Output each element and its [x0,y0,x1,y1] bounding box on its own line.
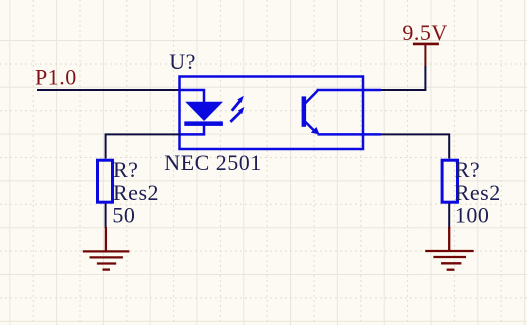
designator R? of R2 [455,157,480,182]
svg-text:Res2: Res2 [455,180,501,205]
value 50 of R1 [112,203,135,228]
svg-text:R?: R? [113,157,138,182]
svg-text:50: 50 [112,203,135,228]
svg-text:R?: R? [455,157,480,182]
svg-text:9.5V: 9.5V [402,20,447,45]
optocoupler U? body [180,77,364,150]
power port 9.5V [402,20,447,67]
ground below R1 [83,227,130,270]
LED diode of optocoupler U? [180,90,223,134]
svg-text:NEC 2501: NEC 2501 [164,150,261,175]
value 100 of R2 [455,203,490,228]
svg-text:P1.0: P1.0 [35,64,77,89]
svg-text:Res2: Res2 [113,180,159,205]
svg-text:100: 100 [455,203,490,228]
ground below R2 [425,227,474,270]
designator U? [169,49,196,74]
wire R2 to ground [448,204,450,229]
resistor R2 body (Res2 100) [442,160,457,202]
comment Res2 of R1 [113,180,159,205]
resistor R1 body (Res2 50) [98,160,113,202]
wire R1 to ground [105,204,107,229]
wire collector pin to 9.5V [381,66,425,90]
wire emitter pin to resistor R2 [381,134,449,158]
phototransistor of optocoupler U? [302,90,381,135]
designator R? of R1 [113,157,138,182]
comment Res2 of R2 [455,180,501,205]
light emission arrows of optocoupler [230,96,244,122]
wire cathode pin to resistor R1 [106,134,180,158]
svg-text:U?: U? [169,49,196,74]
net label P1.0 [35,64,77,89]
wire P1.0 to optocoupler anode pin [37,89,180,91]
comment label NEC 2501 [164,150,261,175]
